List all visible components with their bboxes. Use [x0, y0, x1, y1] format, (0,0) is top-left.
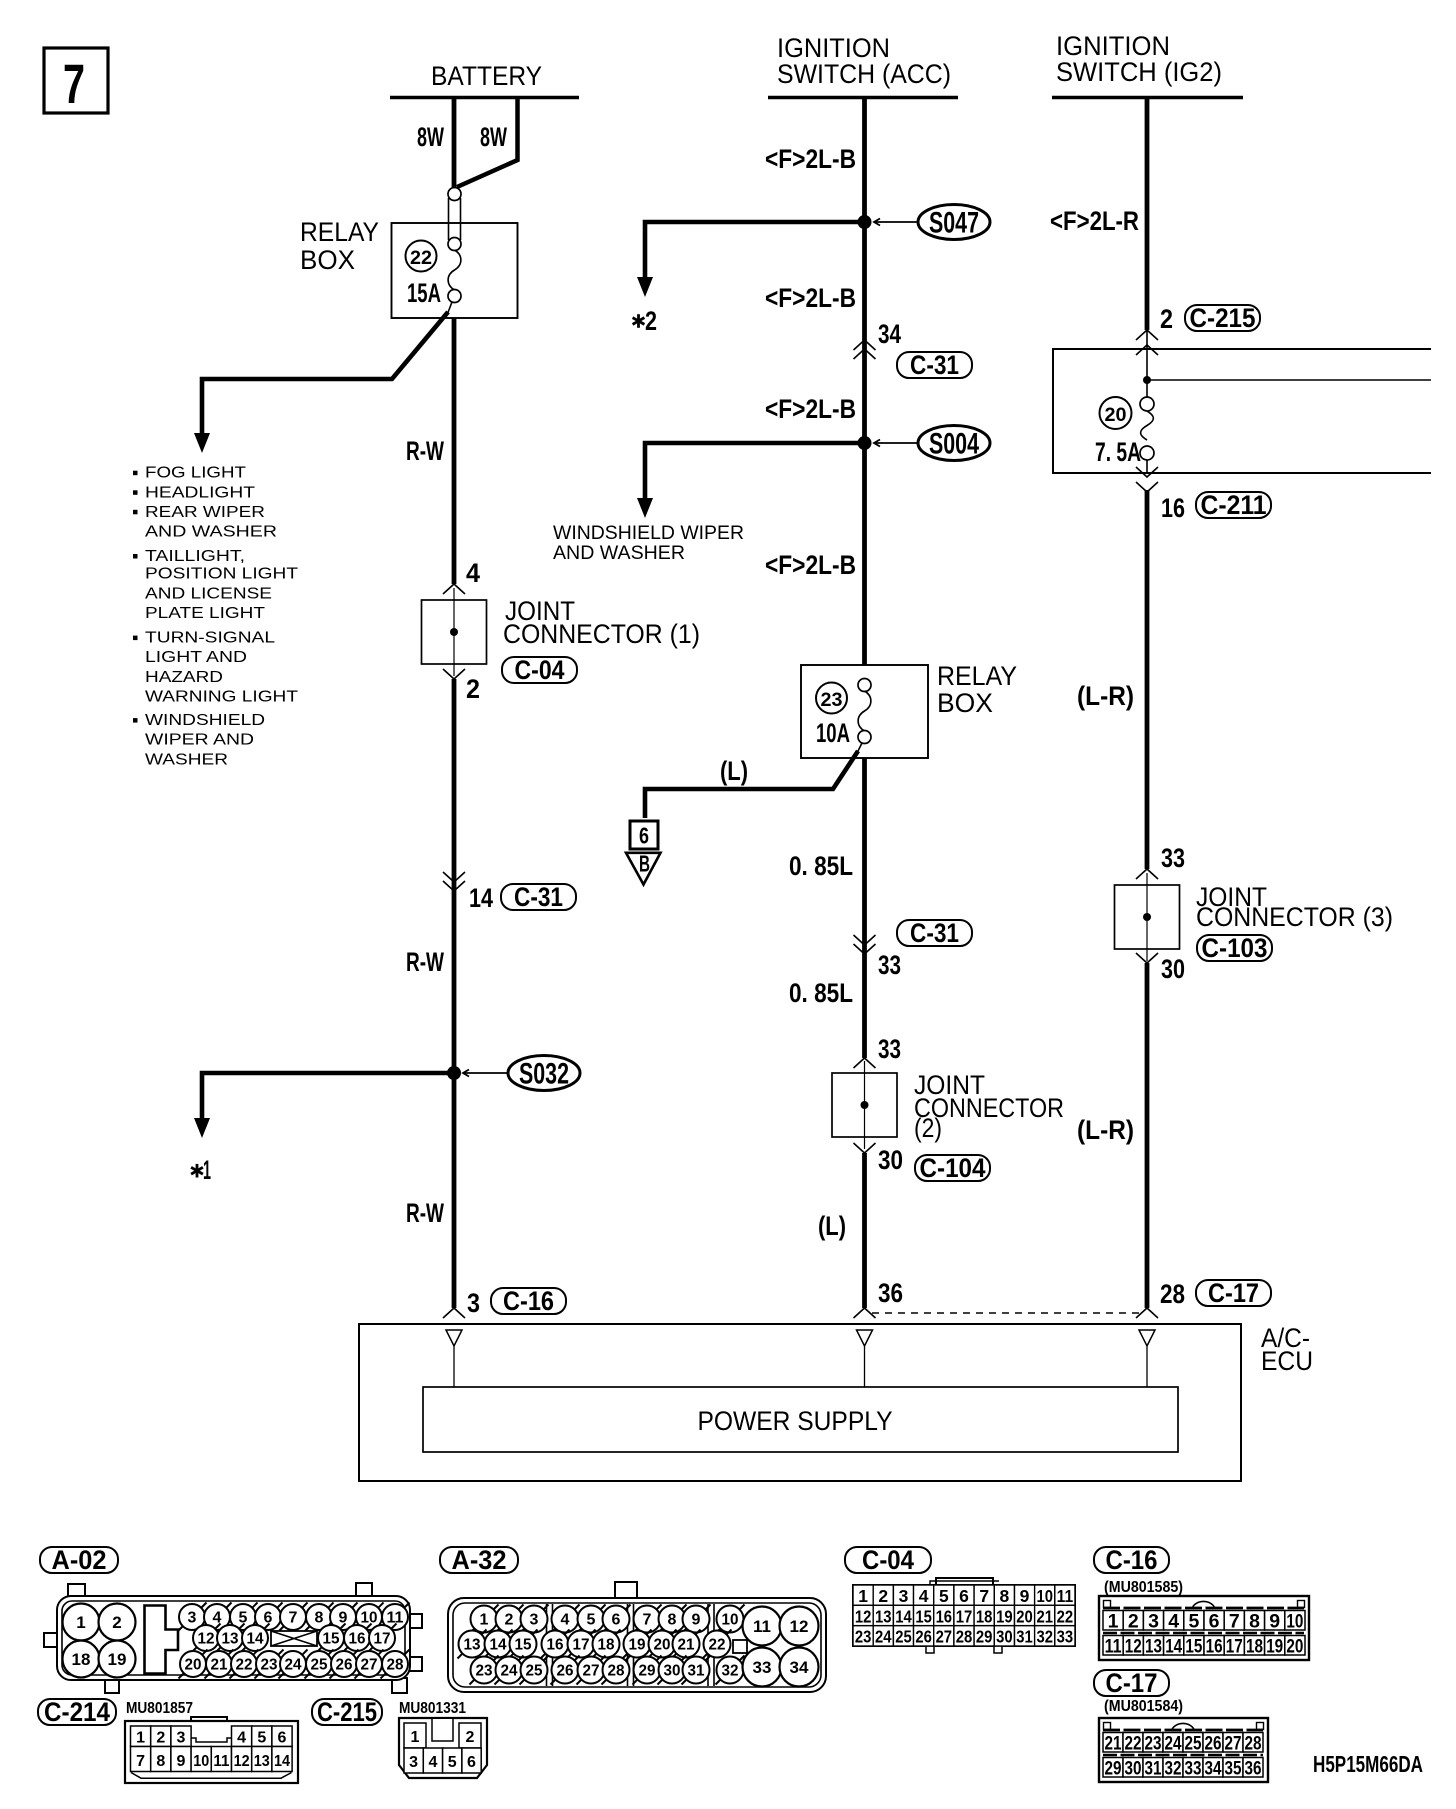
svg-text:H5P15M66DA: H5P15M66DA	[1313, 1751, 1423, 1777]
svg-text:30: 30	[1125, 1757, 1142, 1779]
svg-text:29: 29	[639, 1663, 656, 1680]
A-02 cavity 3	[178, 1603, 207, 1632]
svg-text:28: 28	[1245, 1732, 1262, 1754]
wire label 0.85L (2)	[789, 978, 853, 1008]
C-16 terminal 4	[1164, 1611, 1184, 1631]
svg-text:(L-R): (L-R)	[1077, 1115, 1134, 1145]
svg-text:C-04: C-04	[515, 655, 565, 685]
svg-text:(L): (L)	[720, 756, 748, 786]
svg-text:13: 13	[464, 1637, 481, 1654]
joint connector (1) label	[503, 596, 700, 649]
A-02 blocked cavity	[271, 1631, 317, 1646]
fuse 22 rating 15A	[407, 278, 441, 308]
svg-text:4: 4	[428, 1754, 437, 1771]
A-02 cavity 27	[355, 1650, 384, 1679]
svg-text:4: 4	[1168, 1610, 1179, 1632]
svg-text:13: 13	[222, 1631, 239, 1648]
A-02 cavity 22	[230, 1650, 259, 1679]
A-02 cavity 11	[381, 1603, 410, 1632]
A-32 cavity 16	[541, 1630, 570, 1659]
svg-text:26: 26	[557, 1663, 574, 1680]
svg-text:12: 12	[790, 1617, 809, 1636]
svg-text:21: 21	[1105, 1732, 1122, 1754]
pin 2 of joint connector 1	[443, 669, 465, 679]
C-17 terminal 22	[1123, 1733, 1143, 1753]
connector C-17 housing	[1099, 1718, 1268, 1782]
C-215 terminal 2	[459, 1723, 481, 1748]
svg-text:24: 24	[875, 1627, 892, 1647]
fuse 22 element wavy	[448, 250, 461, 290]
power source BATTERY label	[431, 61, 542, 91]
connector label C-17	[1094, 1668, 1169, 1698]
svg-text:WARNING LIGHT: WARNING LIGHT	[145, 688, 299, 705]
svg-text:35: 35	[1225, 1757, 1242, 1779]
joint connector (1)	[422, 588, 487, 676]
svg-text:4: 4	[561, 1612, 570, 1629]
svg-text:8: 8	[668, 1612, 677, 1629]
pin 3 connector C-16 into ECU	[443, 1308, 465, 1318]
C-16 terminal 2	[1123, 1611, 1143, 1631]
wire label 2L-B (4)	[765, 550, 856, 580]
A-32 cavity 11	[743, 1607, 782, 1646]
svg-text:30: 30	[878, 1145, 903, 1175]
svg-text:7: 7	[289, 1610, 298, 1627]
svg-text:18: 18	[72, 1650, 91, 1669]
junction block exit chevrons	[1136, 467, 1158, 477]
C-16 terminal 1	[1103, 1611, 1123, 1631]
svg-text:32: 32	[1036, 1627, 1053, 1647]
A-32 cavity 19	[623, 1630, 652, 1659]
svg-text:4: 4	[466, 558, 480, 588]
svg-text:<F>2L-B: <F>2L-B	[765, 394, 856, 424]
svg-text:C-16: C-16	[1106, 1545, 1158, 1575]
svg-text:0. 85L: 0. 85L	[789, 851, 853, 881]
svg-text:21: 21	[211, 1657, 228, 1674]
C-16 terminal 18	[1244, 1636, 1264, 1656]
svg-text:26: 26	[336, 1657, 353, 1674]
svg-text:C-214: C-214	[44, 1697, 110, 1727]
A-02 cavity 18	[63, 1641, 100, 1678]
svg-text:R-W: R-W	[406, 1198, 444, 1228]
pin 33 joint connector 3	[1161, 843, 1185, 873]
page number box 7	[44, 48, 108, 115]
svg-text:RELAY: RELAY	[300, 217, 379, 247]
svg-text:31: 31	[1016, 1627, 1033, 1647]
svg-text:23: 23	[476, 1663, 493, 1680]
power source IGNITION SWITCH (IG2)	[1056, 31, 1222, 87]
svg-text:14: 14	[247, 1631, 264, 1648]
svg-text:32: 32	[1165, 1757, 1182, 1779]
svg-text:2: 2	[1128, 1610, 1139, 1632]
svg-text:C-31: C-31	[910, 918, 959, 948]
C-04 terminal 14	[893, 1605, 913, 1625]
svg-text:C-211: C-211	[1201, 490, 1267, 520]
svg-text:10: 10	[1286, 1610, 1303, 1632]
C-04 terminal 7	[974, 1585, 994, 1605]
A-32 cavity 26	[551, 1656, 580, 1685]
svg-text:BOX: BOX	[937, 688, 993, 718]
pin 28 connector C-17	[1160, 1279, 1185, 1309]
C-16 terminal 7	[1224, 1611, 1244, 1631]
svg-text:R-W: R-W	[406, 436, 444, 466]
svg-text:3: 3	[188, 1610, 197, 1627]
svg-text:34: 34	[790, 1658, 809, 1677]
C-04 terminal 5	[934, 1585, 954, 1605]
A/C-ECU box	[359, 1324, 1241, 1481]
wire label 2L-B (3)	[765, 394, 856, 424]
A-32 cavity 7	[633, 1605, 662, 1634]
C-16 terminal 19	[1265, 1636, 1285, 1656]
C-04 terminal 24	[873, 1626, 893, 1646]
fuse number 23	[816, 683, 847, 714]
A-02 cavity 23	[255, 1650, 284, 1679]
svg-text:S032: S032	[519, 1058, 569, 1091]
svg-text:8: 8	[1249, 1610, 1260, 1632]
A-32 cavity 33	[743, 1648, 782, 1687]
pin 16 connector C-211	[1161, 493, 1185, 523]
svg-text:13: 13	[1145, 1635, 1162, 1657]
C-04 terminal 28	[954, 1626, 974, 1646]
A-32 cavity 18	[592, 1630, 621, 1659]
svg-text:SWITCH (IG2): SWITCH (IG2)	[1056, 57, 1222, 87]
A-32 cavity 32	[716, 1656, 745, 1685]
svg-text:HEADLIGHT: HEADLIGHT	[145, 484, 256, 501]
svg-text:6: 6	[639, 823, 649, 849]
svg-text:A-02: A-02	[52, 1545, 107, 1575]
wire battery main drop 8W	[452, 97, 457, 192]
C-16 terminal 6	[1204, 1611, 1224, 1631]
C-04 terminal 21	[1035, 1605, 1055, 1625]
svg-text:36: 36	[878, 1278, 903, 1308]
A-02 cavity 13	[216, 1624, 245, 1653]
wire branch from fuse 22 to light loads	[447, 302, 452, 315]
A-32 cavity 21	[672, 1630, 701, 1659]
power source IGNITION SWITCH (ACC)	[777, 33, 951, 89]
joint connector (3) label	[1196, 882, 1393, 932]
svg-text:ECU: ECU	[1261, 1346, 1313, 1376]
A-02 cavity 14	[241, 1624, 270, 1653]
svg-text:RELAY: RELAY	[937, 661, 1017, 691]
C-16 terminal 12	[1123, 1636, 1143, 1656]
svg-text:5: 5	[1188, 1610, 1199, 1632]
A-32 cavity 25	[520, 1656, 549, 1685]
svg-text:16: 16	[936, 1606, 953, 1626]
svg-text:<F>2L-B: <F>2L-B	[765, 144, 856, 174]
A-02 cavity 16	[343, 1624, 372, 1653]
svg-text:6: 6	[1209, 1610, 1220, 1632]
svg-text:7: 7	[63, 52, 85, 115]
A-32 cavity 13	[458, 1630, 487, 1659]
A-32 cavity 5	[577, 1605, 606, 1634]
wire label 2L-B (2)	[765, 283, 856, 313]
junction node at fusible link top	[448, 188, 461, 201]
wire label R-W (3)	[406, 1198, 444, 1228]
fuse number 22	[406, 241, 437, 272]
connector label A-02	[40, 1545, 118, 1575]
svg-text:23: 23	[855, 1627, 872, 1647]
svg-text:33: 33	[753, 1658, 772, 1677]
svg-text:20: 20	[1016, 1606, 1033, 1626]
svg-text:1: 1	[76, 1613, 85, 1632]
svg-text:8: 8	[156, 1753, 165, 1770]
ACC bus bar	[768, 96, 958, 100]
fuse 20 element	[1140, 397, 1154, 411]
A-32 cavity 23	[470, 1656, 499, 1685]
svg-text:22: 22	[709, 1637, 726, 1654]
svg-text:TAILLIGHT,: TAILLIGHT,	[145, 548, 245, 565]
C-04 terminal 22	[1055, 1605, 1075, 1625]
svg-text:23: 23	[261, 1657, 278, 1674]
svg-text:4: 4	[237, 1730, 246, 1747]
joint connector (2) label	[914, 1070, 1064, 1143]
svg-text:24: 24	[285, 1657, 302, 1674]
svg-text:9: 9	[692, 1612, 701, 1629]
svg-text:SWITCH (ACC): SWITCH (ACC)	[777, 59, 951, 89]
C-215 key slot	[432, 1719, 453, 1741]
pin 2 connector C-215	[1160, 304, 1173, 334]
svg-text:33: 33	[1057, 1627, 1074, 1647]
svg-text:14: 14	[469, 883, 493, 913]
A-02 cavity 17	[368, 1624, 397, 1653]
A-32 cavity 28	[602, 1656, 631, 1685]
wire R-W joint connector 1 to A/C-ECU	[452, 679, 457, 1308]
C-04 terminal 3	[893, 1585, 913, 1605]
wire label 0.85L (1)	[789, 851, 853, 881]
svg-text:33: 33	[878, 950, 901, 980]
A-32 cavity 31	[682, 1656, 711, 1685]
svg-text:18: 18	[598, 1637, 615, 1654]
svg-text:34: 34	[1205, 1757, 1222, 1779]
fuse 20 rating 7.5A	[1095, 437, 1141, 467]
C-17 terminal 26	[1203, 1733, 1223, 1753]
pin 30 connector C-104	[854, 1143, 876, 1153]
svg-text:(2): (2)	[914, 1113, 942, 1143]
A-02 cavity 28	[381, 1650, 410, 1679]
C-17 terminal 25	[1183, 1733, 1203, 1753]
svg-text:28: 28	[1160, 1279, 1185, 1309]
A-32 cavity 4	[551, 1605, 580, 1634]
A-02 cavity 2	[99, 1604, 136, 1641]
A-32 cavity 8	[658, 1605, 687, 1634]
C-16 terminal 9	[1265, 1611, 1285, 1631]
svg-text:AND LICENSE: AND LICENSE	[145, 585, 272, 602]
svg-text:25: 25	[1185, 1732, 1202, 1754]
connector label A-32	[440, 1545, 518, 1575]
svg-text:C-31: C-31	[910, 350, 959, 380]
wire label (L-R)	[1077, 681, 1134, 711]
relay box label	[300, 217, 379, 275]
splice S032 junction	[447, 1066, 461, 1080]
connector A-32 housing	[448, 1582, 826, 1692]
svg-text:20: 20	[185, 1657, 202, 1674]
C-17 terminal 33	[1183, 1758, 1203, 1778]
svg-text:(L-R): (L-R)	[1077, 681, 1134, 711]
splice S032 callout	[463, 1056, 580, 1091]
svg-text:2: 2	[645, 306, 657, 336]
splice S047 junction	[858, 215, 872, 229]
svg-text:15: 15	[915, 1606, 932, 1626]
svg-text:2: 2	[112, 1613, 121, 1632]
C-17 terminal 23	[1143, 1733, 1163, 1753]
svg-text:B: B	[639, 851, 650, 877]
C-16 terminal 8	[1244, 1611, 1264, 1631]
C-214 terminals 7-14	[131, 1747, 151, 1772]
A-32 cavity 20	[648, 1630, 677, 1659]
svg-text:25: 25	[895, 1627, 912, 1647]
svg-text:20: 20	[1105, 404, 1127, 426]
svg-text:17: 17	[374, 1631, 391, 1648]
A-02 cavity 8	[305, 1603, 334, 1632]
svg-text:8: 8	[999, 1586, 1009, 1606]
C-04 terminal 9	[1015, 1585, 1035, 1605]
C-04 terminal 29	[974, 1626, 994, 1646]
svg-text:10A: 10A	[816, 718, 850, 748]
svg-text:12: 12	[198, 1631, 215, 1648]
C-04 terminal 13	[873, 1605, 893, 1625]
C-16 terminal 17	[1224, 1636, 1244, 1656]
intermediate connector crossing 14 C-31	[443, 872, 465, 882]
svg-text:30: 30	[1161, 954, 1185, 984]
A-02 cavity 7	[279, 1603, 308, 1632]
svg-text:11: 11	[213, 1753, 229, 1770]
svg-text:PLATE LIGHT: PLATE LIGHT	[145, 605, 266, 622]
C-17 terminal 27	[1223, 1733, 1243, 1753]
svg-text:S047: S047	[929, 207, 979, 240]
joint connector (3)	[1115, 873, 1180, 961]
connector label C-214	[38, 1697, 116, 1727]
svg-text:27: 27	[583, 1663, 600, 1680]
C-04 terminal 18	[974, 1605, 994, 1625]
load list for fuse 22	[133, 465, 299, 769]
svg-text:C-215: C-215	[317, 1697, 377, 1727]
svg-text:3: 3	[409, 1754, 418, 1771]
A-02 cavity 5	[229, 1603, 258, 1632]
C-17 terminal 31	[1143, 1758, 1163, 1778]
svg-text:18: 18	[1246, 1635, 1263, 1657]
A-32 cavity 30	[658, 1656, 687, 1685]
battery bus bar	[390, 96, 579, 100]
svg-text:WIPER AND: WIPER AND	[145, 732, 254, 749]
svg-text:MU801331: MU801331	[399, 1700, 466, 1717]
wire label 8W left	[417, 122, 444, 152]
connector C-16 housing	[1099, 1596, 1309, 1660]
connector A-02 key	[145, 1606, 179, 1674]
C-214 terminals 1-6	[131, 1726, 151, 1747]
C-04 terminal 23	[853, 1626, 873, 1646]
intermediate connector crossing 34 C-31	[878, 319, 901, 349]
svg-text:C-04: C-04	[862, 1545, 914, 1575]
connector label C-04	[845, 1545, 931, 1575]
C-214 center latch	[191, 1738, 232, 1742]
svg-text:9: 9	[1269, 1610, 1280, 1632]
svg-text:27: 27	[1225, 1732, 1242, 1754]
A-32 cavity 6	[602, 1605, 631, 1634]
svg-text:28: 28	[387, 1657, 404, 1674]
svg-text:10: 10	[1036, 1586, 1053, 1606]
svg-text:17: 17	[1226, 1635, 1243, 1657]
svg-text:10: 10	[722, 1612, 739, 1629]
C-17 terminal 30	[1123, 1758, 1143, 1778]
A-32 cavity 14	[484, 1630, 513, 1659]
svg-text:16: 16	[1206, 1635, 1223, 1657]
svg-text:1: 1	[480, 1612, 489, 1629]
A-02 cavity 10	[355, 1603, 384, 1632]
wire label (L-R) 2	[1077, 1115, 1134, 1145]
svg-text:WASHER: WASHER	[145, 751, 228, 768]
svg-text:31: 31	[688, 1663, 705, 1680]
svg-text:BATTERY: BATTERY	[431, 61, 542, 91]
A-02 cavity 25	[305, 1650, 334, 1679]
A-32 cavity 12	[780, 1607, 819, 1646]
svg-text:27: 27	[936, 1627, 953, 1647]
svg-text:36: 36	[1245, 1757, 1262, 1779]
svg-text:33: 33	[1185, 1757, 1202, 1779]
wire branch (L) to ground B	[857, 743, 862, 753]
fusible link element	[448, 198, 450, 240]
wire branch *2	[645, 222, 864, 281]
svg-text:7: 7	[979, 1586, 989, 1606]
svg-text:2: 2	[156, 1730, 165, 1747]
svg-text:23: 23	[821, 689, 843, 711]
wire label (L)	[818, 1211, 846, 1241]
svg-text:20: 20	[654, 1637, 671, 1654]
C-16 terminal 5	[1184, 1611, 1204, 1631]
svg-text:28: 28	[956, 1627, 973, 1647]
svg-text:2: 2	[466, 1729, 475, 1746]
svg-text:1: 1	[858, 1586, 868, 1606]
C-04 terminal 16	[934, 1605, 954, 1625]
A-02 cavity 24	[279, 1650, 308, 1679]
A-32 cavity 24	[495, 1656, 524, 1685]
svg-text:16: 16	[547, 1637, 564, 1654]
A-32 cavity 1	[470, 1605, 499, 1634]
svg-text:9: 9	[339, 1610, 348, 1627]
fuse 23 element	[858, 679, 871, 692]
connector label C-16	[1094, 1545, 1169, 1575]
C-04 terminal 6	[954, 1585, 974, 1605]
wire inside junction block	[1146, 331, 1148, 397]
A-02 cavity 20	[179, 1650, 208, 1679]
node on internal bus	[1143, 376, 1151, 384]
C-04 terminal 17	[954, 1605, 974, 1625]
svg-text:5: 5	[257, 1730, 266, 1747]
A-32 cavity 29	[633, 1656, 662, 1685]
svg-text:TURN-SIGNAL: TURN-SIGNAL	[145, 630, 275, 647]
svg-text:13: 13	[875, 1606, 892, 1626]
svg-text:2: 2	[466, 674, 480, 704]
svg-text:C-17: C-17	[1106, 1668, 1158, 1698]
C-215 terminal 1	[404, 1723, 426, 1748]
svg-text:7. 5A: 7. 5A	[1095, 437, 1141, 467]
svg-text:11: 11	[1105, 1635, 1122, 1657]
A-32 cavity 34	[780, 1648, 819, 1687]
svg-text:6: 6	[612, 1612, 621, 1629]
A-02 cavity 4	[203, 1603, 232, 1632]
svg-text:CONNECTOR (3): CONNECTOR (3)	[1196, 902, 1393, 932]
svg-text:26: 26	[915, 1627, 932, 1647]
A-32 cavity 2	[495, 1605, 524, 1634]
svg-text:7: 7	[643, 1612, 652, 1629]
svg-text:16: 16	[1161, 493, 1185, 523]
intermediate connector crossing C-31 33	[897, 918, 972, 948]
C-215 terminals 3-6	[404, 1748, 423, 1773]
pin 30 of joint connector 3	[1136, 953, 1158, 963]
IG2 bus bar	[1052, 96, 1243, 100]
svg-text:16: 16	[349, 1631, 366, 1648]
A-02 cavity 15	[317, 1624, 346, 1653]
svg-text:12: 12	[855, 1606, 872, 1626]
wire label 2L-B (1)	[765, 144, 856, 174]
